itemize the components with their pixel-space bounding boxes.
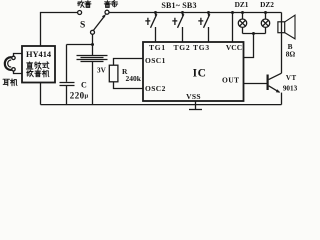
radio box HY414	[22, 46, 55, 83]
wire: battery to bottom rail	[92, 62, 94, 105]
wire: earphone top terminal to radio box	[14, 54, 23, 57]
svg-text:DZ2: DZ2	[260, 0, 274, 9]
pushbutton SB1	[145, 11, 157, 42]
IC box	[143, 42, 244, 101]
transistor VT base wire from OUT	[244, 83, 268, 85]
svg-text:VSS: VSS	[186, 92, 201, 101]
wire: emitter to bottom rail	[281, 93, 283, 105]
pushbutton SB2	[172, 11, 184, 42]
svg-text:OSC1: OSC1	[145, 56, 166, 65]
label 耳机 (earphone)	[3, 79, 17, 86]
wire: top rail from YINYUE contact to speaker corner	[109, 12, 282, 14]
svg-text:3V: 3V	[97, 67, 107, 75]
svg-text:220μ: 220μ	[70, 90, 89, 100]
speaker B cone	[285, 15, 295, 39]
wire: lamps to IC right side pin	[244, 34, 254, 58]
svg-text:TG3: TG3	[193, 43, 210, 52]
earphone icon	[5, 57, 13, 70]
transistor VT base bar	[267, 75, 269, 91]
speaker B body	[278, 22, 285, 33]
pushbutton SB3	[198, 11, 210, 42]
wire: radio box bottom to rail	[40, 83, 42, 105]
bottom rail	[41, 104, 282, 106]
capacitor C plates	[60, 83, 75, 86]
junction node dot	[91, 43, 94, 46]
label 音乐 (music)	[104, 1, 117, 8]
svg-text:SB1~ SB3: SB1~ SB3	[161, 1, 196, 10]
svg-text:VT: VT	[286, 74, 297, 82]
transistor VT emitter with arrow	[269, 86, 280, 93]
resistor R bottom wire to OSC2	[114, 82, 144, 89]
svg-text:TG2: TG2	[174, 43, 191, 52]
svg-text:VCC: VCC	[226, 43, 242, 52]
switch pole circle	[91, 30, 95, 34]
resistor R body	[109, 65, 118, 82]
svg-text:TG1: TG1	[149, 43, 166, 52]
label 收音 (radio)	[78, 1, 91, 8]
ground stub below VSS	[195, 101, 197, 109]
wire: earphone bottom terminal to radio box	[14, 71, 23, 74]
speaker B wire down from top rail	[281, 13, 283, 74]
wire: radio box top to SHOUYIN contact	[41, 13, 78, 47]
svg-text:IC: IC	[193, 67, 207, 79]
wire: VCC stub to top rail	[231, 11, 234, 14]
wire: lamps common join	[243, 33, 266, 35]
switch S arm with arrowhead	[93, 16, 105, 31]
node: SHOUYIN contact circle	[78, 11, 82, 15]
node: YINYUE contact circle	[105, 10, 109, 14]
wire: pole down to junction	[92, 34, 94, 44]
svg-text:8Ω: 8Ω	[286, 49, 296, 58]
battery 3V plates	[77, 56, 108, 62]
wire: capacitor branch down	[66, 45, 68, 82]
svg-text:S: S	[80, 21, 85, 31]
lamp DZ2	[261, 11, 269, 34]
wire: junction left to capacitor branch	[67, 44, 93, 46]
svg-text:HY414: HY414	[26, 50, 52, 59]
battery 3V wire from junction	[92, 45, 94, 56]
svg-text:OSC2: OSC2	[145, 84, 166, 93]
svg-text:9013: 9013	[283, 84, 298, 92]
lamp DZ1	[238, 11, 246, 34]
svg-text:DZ1: DZ1	[235, 0, 249, 9]
transistor VT collector	[269, 73, 282, 79]
wire: capacitor to bottom rail	[66, 86, 68, 105]
svg-text:240k: 240k	[126, 74, 142, 83]
label 收音机	[27, 70, 49, 77]
label 直放式	[26, 62, 49, 69]
resistor R top wire to OSC1	[114, 59, 144, 66]
svg-text:C: C	[81, 81, 87, 90]
svg-text:OUT: OUT	[222, 75, 239, 84]
